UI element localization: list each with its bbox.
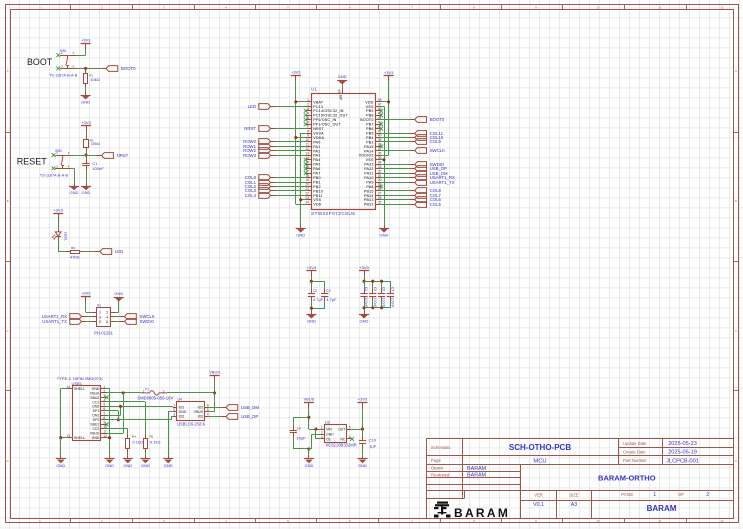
svg-text:OF: OF [678, 492, 685, 497]
svg-text:6: 6 [103, 407, 105, 411]
svg-text:2: 2 [163, 390, 165, 394]
svg-text:PA14: PA14 [364, 149, 373, 153]
svg-text:BARAM: BARAM [647, 504, 677, 513]
svg-text:PF1/OSC_OUT: PF1/OSC_OUT [313, 123, 341, 127]
svg-text:COL9: COL9 [430, 139, 442, 144]
svg-text:LED: LED [248, 104, 256, 109]
svg-text:D: D [7, 459, 9, 463]
svg-text:22: 22 [305, 192, 309, 196]
svg-text:SIZE: SIZE [569, 492, 579, 497]
svg-text:9: 9 [307, 134, 309, 138]
svg-text:DP1: DP1 [93, 409, 100, 413]
svg-text:SBU2: SBU2 [90, 396, 99, 400]
svg-text:2: 2 [307, 103, 309, 107]
svg-text:10kΩ: 10kΩ [90, 77, 99, 82]
svg-text:PB13: PB13 [364, 198, 374, 202]
svg-text:SWDIO: SWDIO [140, 319, 155, 324]
svg-text:2: 2 [321, 431, 323, 435]
svg-text:DP2: DP2 [93, 418, 100, 422]
svg-text:BOOT0: BOOT0 [121, 66, 136, 71]
svg-text:VDDA: VDDA [313, 136, 324, 140]
svg-text:D: D [735, 459, 737, 463]
svg-text:SW2: SW2 [55, 149, 62, 153]
svg-text:Part Number: Part Number [623, 458, 647, 463]
svg-text:V0.1: V0.1 [533, 502, 544, 508]
svg-text:SHELL: SHELL [74, 436, 85, 440]
svg-text:PB9: PB9 [366, 109, 374, 113]
svg-text:PB1: PB1 [313, 180, 321, 184]
svg-text:DN2: DN2 [92, 405, 99, 409]
svg-text:+3V3: +3V3 [359, 265, 369, 270]
svg-text:PA13: PA13 [364, 163, 373, 167]
svg-text:C7: C7 [391, 287, 395, 291]
svg-text:PB7: PB7 [366, 123, 374, 127]
svg-text:8: 8 [307, 129, 309, 133]
svg-text:USART1_TX: USART1_TX [42, 319, 67, 324]
svg-text:PB12: PB12 [364, 203, 374, 207]
svg-text:PA7: PA7 [313, 172, 320, 176]
svg-text:PB3: PB3 [366, 140, 374, 144]
svg-text:PA10: PA10 [364, 176, 373, 180]
svg-text:2: 2 [706, 492, 709, 498]
svg-text:C: C [735, 329, 737, 333]
svg-text:36: 36 [378, 152, 382, 156]
svg-text:+3V3: +3V3 [291, 70, 301, 75]
svg-text:2: 2 [173, 408, 175, 412]
svg-text:VSS: VSS [366, 158, 374, 162]
svg-text:B: B [735, 199, 737, 203]
svg-text:USBLC6-2SC6: USBLC6-2SC6 [177, 421, 206, 426]
svg-text:SCH-OTHO-PCB: SCH-OTHO-PCB [509, 443, 571, 452]
svg-text:PA15: PA15 [364, 145, 373, 149]
svg-text:USART1_TX: USART1_TX [430, 180, 455, 185]
svg-text:TS-1187A-B-A-B: TS-1187A-B-A-B [49, 74, 78, 78]
svg-text:SHELL: SHELL [74, 387, 85, 391]
svg-text:3: 3 [99, 315, 101, 319]
svg-text:GND: GND [81, 99, 90, 104]
svg-text:VER: VER [534, 492, 543, 497]
svg-text:BOOT0: BOOT0 [430, 117, 445, 122]
svg-text:PA8: PA8 [366, 185, 373, 189]
svg-text:VSS: VSS [366, 105, 374, 109]
svg-text:GND: GND [304, 463, 313, 468]
svg-text:+3V3: +3V3 [81, 38, 91, 43]
svg-text:470Ω: 470Ω [70, 255, 80, 260]
svg-text:LED: LED [115, 249, 123, 254]
svg-text:IO2: IO2 [179, 414, 185, 418]
svg-text:NC: NC [340, 438, 345, 442]
svg-text:VBUS: VBUS [303, 397, 314, 402]
svg-text:Update Date: Update Date [623, 441, 647, 446]
svg-text:CE: CE [326, 438, 331, 442]
svg-text:100nF: 100nF [382, 298, 386, 308]
svg-text:GND: GND [123, 463, 132, 468]
svg-text:OUT: OUT [338, 428, 345, 432]
svg-text:JLCPCB-001: JLCPCB-001 [666, 458, 699, 464]
svg-text:GND: GND [360, 319, 369, 324]
svg-text:C5: C5 [373, 287, 377, 291]
svg-text:2: 2 [103, 389, 105, 393]
svg-text:XC6210B332MR: XC6210B332MR [325, 443, 356, 448]
svg-text:7: 7 [103, 412, 105, 416]
svg-text:NRST: NRST [117, 153, 129, 158]
svg-text:1µF: 1µF [369, 443, 377, 448]
svg-text:VDD: VDD [313, 203, 321, 207]
svg-text:+3V3: +3V3 [307, 265, 317, 270]
svg-text:25: 25 [378, 200, 382, 204]
svg-text:49: 49 [337, 89, 341, 93]
svg-text:Drawn: Drawn [431, 466, 444, 471]
svg-text:GND: GND [141, 463, 150, 468]
svg-text:30: 30 [378, 178, 382, 182]
svg-text:LED1: LED1 [63, 232, 67, 241]
svg-text:GND: GND [56, 463, 65, 468]
svg-text:47: 47 [378, 103, 382, 107]
svg-text:PF0/OSC_IN: PF0/OSC_IN [313, 118, 336, 122]
svg-text:Create Date: Create Date [623, 449, 646, 454]
svg-text:BOOT0: BOOT0 [360, 118, 373, 122]
svg-text:GND: GND [70, 190, 79, 195]
svg-text:Page: Page [431, 458, 441, 463]
svg-text:USB_DM: USB_DM [241, 405, 259, 410]
svg-text:VBAT: VBAT [313, 100, 324, 104]
svg-text:+3V3: +3V3 [358, 397, 368, 402]
svg-text:U2: U2 [325, 419, 331, 424]
svg-text:5.1kΩ: 5.1kΩ [132, 439, 143, 444]
svg-text:13: 13 [305, 152, 309, 156]
svg-text:VBUS: VBUS [90, 432, 100, 436]
svg-text:COL5: COL5 [430, 202, 442, 207]
svg-text:Reviewed: Reviewed [431, 472, 450, 477]
svg-text:C10: C10 [369, 437, 377, 442]
svg-text:BARAM: BARAM [454, 506, 510, 520]
svg-text:GND: GND [105, 463, 114, 468]
svg-text:BARAM: BARAM [467, 466, 487, 472]
svg-text:MCU: MCU [533, 459, 546, 465]
svg-text:+3V3: +3V3 [384, 70, 394, 75]
svg-text:4.7µF: 4.7µF [326, 297, 337, 302]
svg-text:24: 24 [305, 200, 309, 204]
svg-text:PA0: PA0 [313, 140, 320, 144]
svg-text:VBUS: VBUS [90, 391, 100, 395]
svg-text:PH-01291: PH-01291 [94, 330, 114, 335]
svg-text:4: 4 [106, 315, 108, 319]
svg-text:NRST: NRST [244, 126, 256, 131]
svg-text:5.1kΩ: 5.1kΩ [150, 439, 161, 444]
svg-text:VBUS: VBUS [194, 410, 204, 414]
svg-text:1: 1 [142, 390, 144, 394]
svg-text:+3V3: +3V3 [53, 208, 63, 213]
svg-text:VIN: VIN [326, 428, 332, 432]
svg-text:PA5: PA5 [313, 163, 320, 167]
svg-text:Schematic: Schematic [431, 445, 451, 450]
svg-text:5: 5 [99, 320, 101, 324]
svg-text:B: B [7, 199, 9, 203]
svg-text:PC15/OSC32_OUT: PC15/OSC32_OUT [313, 114, 348, 118]
svg-text:R5: R5 [149, 434, 153, 438]
svg-text:GND: GND [380, 233, 389, 238]
svg-text:SWCLK: SWCLK [430, 148, 445, 153]
svg-text:VSS: VSS [313, 198, 321, 202]
svg-text:PA11: PA11 [364, 172, 373, 176]
svg-text:GND: GND [114, 291, 123, 296]
svg-text:4: 4 [207, 412, 209, 416]
svg-text:C: C [7, 329, 9, 333]
svg-text:SW1: SW1 [60, 49, 67, 53]
svg-text:PB6: PB6 [366, 127, 374, 131]
svg-text:PB2: PB2 [313, 185, 321, 189]
svg-text:10µF: 10µF [296, 435, 306, 440]
svg-text:C2: C2 [313, 289, 317, 293]
svg-text:3: 3 [321, 435, 323, 439]
svg-text:PC13: PC13 [313, 105, 323, 109]
svg-text:PA9: PA9 [366, 180, 373, 184]
svg-text:2025-05-23: 2025-05-23 [668, 441, 697, 447]
svg-text:GND: GND [296, 233, 305, 238]
svg-text:GND: GND [326, 433, 334, 437]
svg-text:GND: GND [92, 436, 100, 440]
svg-text:VBUS: VBUS [209, 370, 220, 375]
svg-text:BARAM: BARAM [467, 473, 487, 479]
svg-text:PC14/OSC32_IN: PC14/OSC32_IN [313, 109, 344, 113]
svg-text:VDD: VDD [365, 100, 373, 104]
svg-text:GND: GND [358, 463, 367, 468]
svg-text:A: A [735, 69, 737, 73]
svg-text:1: 1 [103, 385, 105, 389]
svg-text:H1: H1 [97, 303, 101, 307]
svg-text:GND: GND [338, 74, 347, 79]
svg-text:NRST: NRST [313, 127, 324, 131]
svg-text:A: A [7, 69, 9, 73]
svg-text:2025-05-19: 2025-05-19 [668, 450, 697, 456]
svg-text:IO2: IO2 [198, 414, 204, 418]
svg-text:6: 6 [106, 320, 108, 324]
svg-text:10kΩ: 10kΩ [91, 141, 100, 146]
svg-text:8: 8 [103, 416, 105, 420]
svg-text:C6: C6 [382, 287, 386, 291]
svg-text:U4: U4 [178, 398, 182, 402]
svg-text:100nF: 100nF [92, 166, 104, 171]
svg-text:PA12: PA12 [364, 167, 373, 171]
svg-text:+3V3: +3V3 [81, 290, 91, 295]
svg-text:GND: GND [82, 190, 91, 195]
svg-text:32: 32 [378, 169, 382, 173]
svg-text:PB14: PB14 [364, 194, 374, 198]
svg-text:GND: GND [307, 319, 316, 324]
svg-text:1: 1 [307, 98, 309, 102]
svg-text:A3: A3 [571, 502, 578, 508]
svg-text:R4: R4 [132, 434, 136, 438]
svg-text:PA4: PA4 [313, 158, 320, 162]
svg-text:PB4: PB4 [366, 136, 374, 140]
svg-text:4.7µF: 4.7µF [313, 297, 324, 302]
svg-text:PB8: PB8 [366, 114, 374, 118]
svg-text:U1: U1 [311, 86, 318, 91]
svg-text:PA2: PA2 [313, 149, 320, 153]
svg-text:100nF: 100nF [391, 298, 395, 308]
svg-text:PA3: PA3 [313, 154, 320, 158]
svg-text:19: 19 [305, 178, 309, 182]
svg-text:+3V3: +3V3 [81, 120, 91, 125]
svg-text:DN1: DN1 [92, 414, 99, 418]
svg-text:GND: GND [92, 387, 100, 391]
svg-text:C8: C8 [297, 427, 301, 431]
svg-text:27: 27 [378, 192, 382, 196]
svg-text:COL4: COL4 [245, 193, 257, 198]
svg-text:EP: EP [339, 95, 343, 100]
svg-text:SMD0805-050-16V: SMD0805-050-16V [137, 395, 173, 400]
svg-text:PB10: PB10 [313, 189, 323, 193]
svg-text:BOOT: BOOT [27, 57, 53, 67]
svg-text:PAGE: PAGE [621, 492, 633, 497]
svg-text:PB5: PB5 [366, 131, 374, 135]
svg-text:GND: GND [164, 463, 173, 468]
svg-text:2: 2 [106, 311, 108, 315]
svg-text:PB0: PB0 [313, 176, 321, 180]
svg-text:1: 1 [99, 311, 101, 315]
svg-text:C3: C3 [326, 289, 330, 293]
svg-text:PB11: PB11 [313, 194, 322, 198]
svg-text:1: 1 [321, 426, 323, 430]
svg-text:5: 5 [349, 426, 351, 430]
svg-text:34: 34 [378, 160, 382, 164]
svg-text:ROW3: ROW3 [243, 153, 257, 158]
svg-text:STM32F072C8U6: STM32F072C8U6 [311, 211, 356, 217]
svg-text:1: 1 [653, 492, 656, 498]
svg-text:5: 5 [207, 408, 209, 412]
svg-text:BARAM-ORTHO: BARAM-ORTHO [598, 473, 656, 482]
svg-text:F1: F1 [145, 387, 149, 391]
svg-text:RESET: RESET [17, 156, 48, 166]
svg-text:PB15: PB15 [364, 189, 374, 193]
svg-text:100nF: 100nF [373, 298, 377, 308]
svg-text:5: 5 [103, 403, 105, 407]
svg-text:GND: GND [179, 410, 187, 414]
svg-text:SBU1: SBU1 [90, 423, 99, 427]
svg-text:CC1: CC1 [92, 400, 99, 404]
svg-text:TS-1187A-B-A-B: TS-1187A-B-A-B [40, 174, 69, 178]
svg-text:PA6: PA6 [313, 167, 320, 171]
svg-text:CC2: CC2 [92, 427, 99, 431]
svg-text:VDDIO2: VDDIO2 [359, 154, 374, 158]
svg-text:USB_DP: USB_DP [241, 414, 258, 419]
svg-text:3: 3 [173, 412, 175, 416]
svg-text:R3: R3 [71, 246, 75, 250]
svg-text:PA1: PA1 [313, 145, 320, 149]
svg-text:VSSA: VSSA [313, 131, 324, 135]
